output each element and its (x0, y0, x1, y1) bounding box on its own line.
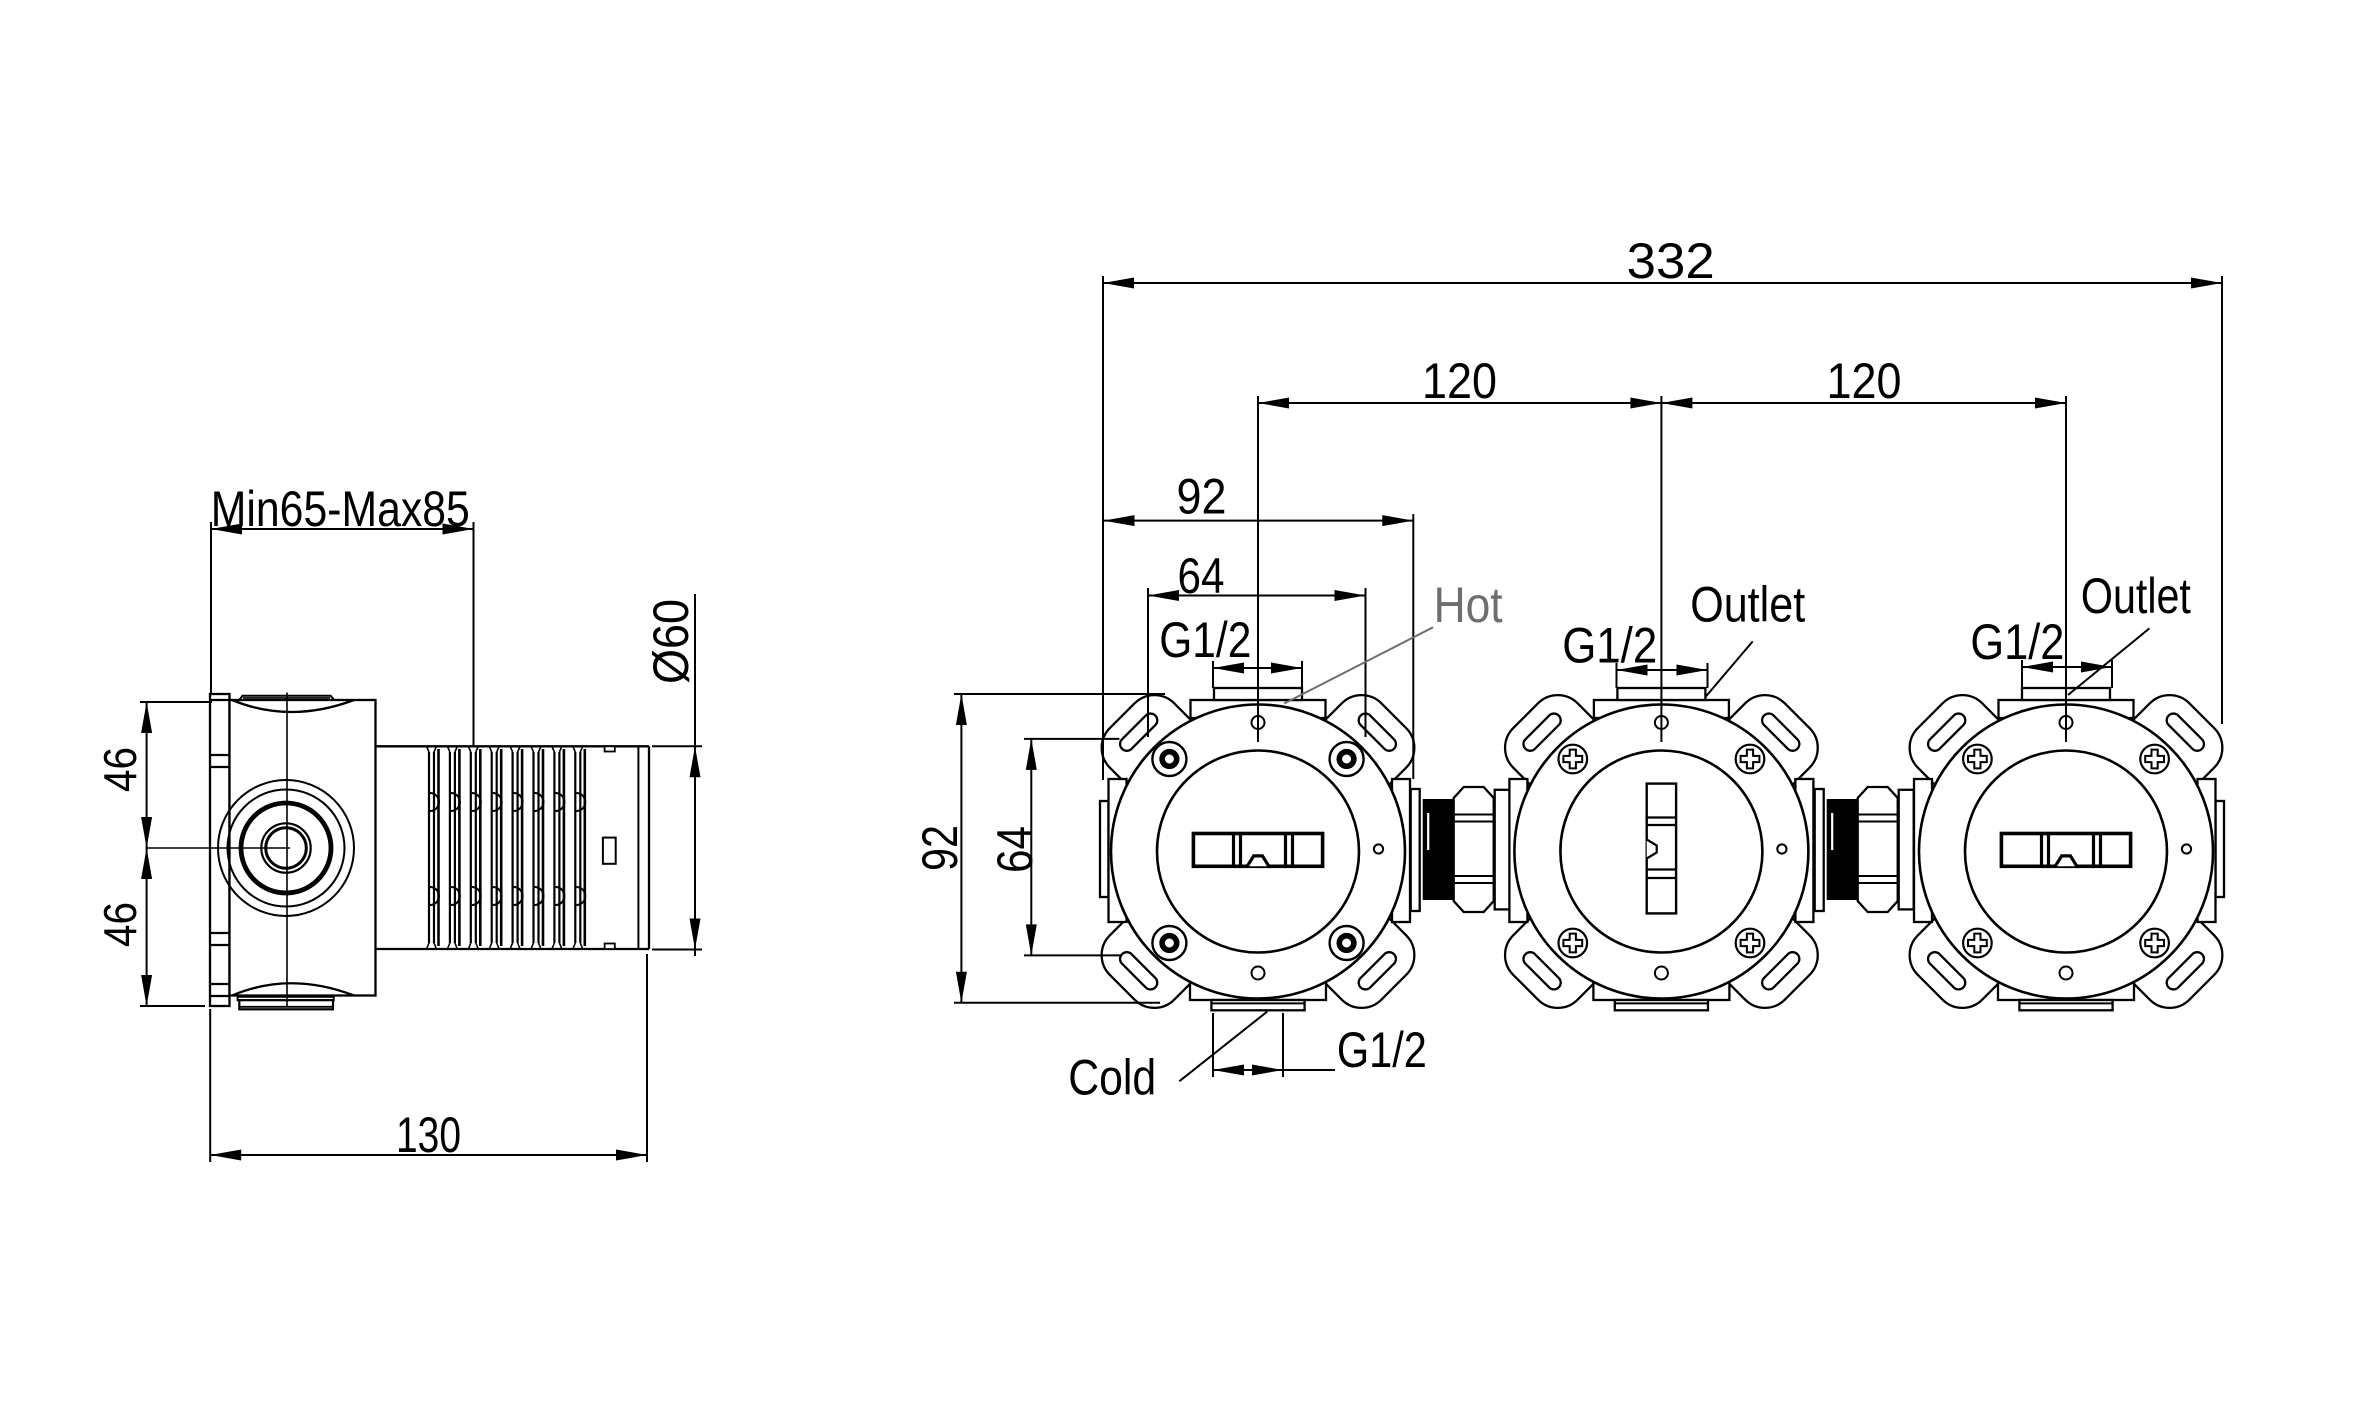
svg-text:64: 64 (987, 826, 1043, 873)
svg-text:332: 332 (1627, 233, 1715, 289)
valve 2: four phillips screws (1559, 745, 1588, 774)
left view: mounting flange strip (edge view) (210, 694, 230, 1006)
left view: thick ring r45 (241, 803, 331, 893)
valve 1: right side small hole (1374, 844, 1383, 853)
valve 2: vertical keyway slot (1647, 784, 1676, 914)
left view: ribs (428, 752, 430, 943)
left view: bottom concave arc (232, 983, 354, 995)
left view: valve body rectangle (230, 700, 376, 996)
svg-text:G1/2: G1/2 (1562, 618, 1657, 674)
valve 1: bottom port: G1/2 plate (1211, 1000, 1304, 1010)
svg-text:Ø60: Ø60 (643, 599, 699, 684)
valve 3: bottom small hole (2060, 967, 2073, 980)
svg-text:92: 92 (912, 825, 968, 871)
coupling between valve 2 and 3: hex nut (1858, 787, 1898, 912)
svg-text:120: 120 (1827, 353, 1902, 409)
left view: bottom plaster plates (238, 997, 334, 1000)
coupling between valve 2 and 3: left washer ring (1815, 789, 1824, 911)
coupling between valve 2 and 3: right collar ring (1899, 790, 1914, 910)
valve 2: inner cover circle (1560, 751, 1762, 953)
coupling between valve 1 and 2: black threaded sleeve (1424, 800, 1454, 899)
svg-text:Outlet: Outlet (2081, 568, 2191, 624)
left view: top plaster plate (239, 696, 334, 701)
valve 1: outer body circle (1111, 705, 1405, 999)
valve 3: top port: flange (1999, 700, 2134, 718)
valve 1: upper-right mounting ear (1305, 684, 1426, 805)
valve 3: bottom port: G1/2 plate (2019, 1000, 2112, 1010)
valve 3: upper-left mounting ear (1898, 684, 2019, 805)
valve 3: inner cover circle (1965, 751, 2167, 953)
svg-text:120: 120 (1422, 353, 1497, 409)
valve 3: horizontal keyway slot (2001, 834, 2130, 867)
left view: inner circle r24.7 (261, 823, 310, 872)
valve 1: bottom small hole (1252, 967, 1265, 980)
svg-text:Hot: Hot (1434, 577, 1503, 633)
left view: vertical centerline (286, 693, 288, 1007)
valve 3: outer body circle (1919, 705, 2213, 999)
valve 3: bottom port: bottom flange (1998, 955, 2134, 1000)
valve 3: top small hole (2060, 716, 2073, 729)
valve 3: lower-left mounting ear (1898, 899, 2019, 1020)
valve 2: lower-left mounting ear (1493, 899, 1614, 1020)
valve 3: left plate (1914, 779, 1932, 922)
valve 1: lower-left mounting ear (1090, 899, 1211, 1020)
valve 1: bottom port: bottom flange (1190, 955, 1326, 1000)
valve 2: top port: G1/2 spigot (1617, 688, 1705, 700)
valve 2: bottom port: bottom flange (1593, 955, 1729, 1000)
left view: ribbed cylinder outline (429, 745, 649, 747)
svg-text:Cold: Cold (1068, 1049, 1156, 1105)
valve 3: right plates (2216, 801, 2225, 897)
valve 1: four ring screws (1152, 742, 1186, 776)
left view: circle r58.5 (228, 790, 345, 907)
coupling between valve 2 and 3: black threaded sleeve (1828, 800, 1858, 899)
valve 2: outer body circle (1514, 705, 1808, 999)
valve 2: top port: flange (1594, 700, 1729, 718)
svg-text:G1/2: G1/2 (1337, 1022, 1427, 1078)
svg-text:46: 46 (94, 747, 146, 792)
valve 1: top port: G1/2 spigot (1214, 688, 1302, 700)
coupling between valve 1 and 2: right collar ring (1495, 790, 1510, 910)
valve 3: lower-right mounting ear (2113, 899, 2234, 1020)
valve 2: left plate (1509, 779, 1527, 922)
valve 2: bottom small hole (1655, 967, 1668, 980)
valve 1: left inlet plates (1100, 801, 1109, 897)
valve 3: four phillips screws (1963, 745, 1992, 774)
left view: neck bottom edge (376, 948, 430, 950)
valve 3: upper-right mounting ear (2113, 684, 2234, 805)
left view: cylinder end cap (648, 746, 650, 949)
valve 1: top port: flange (1191, 700, 1326, 718)
valve 2: right plate (1795, 779, 1813, 922)
valve 2: bottom port: G1/2 plate (1615, 1000, 1708, 1010)
coupling between valve 1 and 2: hex nut (1454, 787, 1494, 912)
svg-text:G1/2: G1/2 (1159, 612, 1251, 668)
valve 2: upper-left mounting ear (1493, 684, 1614, 805)
center extension lines through valve tops (1257, 396, 1259, 742)
valve 1: top small hole (1252, 716, 1265, 729)
left view: cap slot (603, 838, 616, 864)
left view: neck top edge (376, 745, 430, 747)
valve 3: top port: G1/2 spigot (2022, 688, 2110, 700)
valve 1: upper-left mounting ear (1090, 684, 1211, 805)
valve 2: top small hole (1655, 716, 1668, 729)
valve 2: right side small hole (1777, 844, 1786, 853)
svg-text:92: 92 (1177, 469, 1227, 525)
valve 3: right side small hole (2182, 844, 2191, 853)
coupling between valve 1 and 2: left washer ring (1411, 789, 1420, 911)
left view: top concave arc (232, 700, 354, 712)
svg-text:Outlet: Outlet (1690, 576, 1805, 632)
valve 1: lower-right mounting ear (1305, 899, 1426, 1020)
left view: outer circle r68 (218, 780, 354, 916)
valve 1: right plate (1392, 779, 1410, 922)
left view: inner circle r20.3 (266, 828, 307, 869)
left view: horizontal centerline (147, 847, 290, 849)
valve 2: upper-right mounting ear (1708, 684, 1829, 805)
valve 2: lower-right mounting ear (1708, 899, 1829, 1020)
svg-text:46: 46 (94, 902, 146, 947)
valve 1: inner cover circle (1157, 751, 1359, 953)
svg-text:G1/2: G1/2 (1970, 614, 2064, 670)
